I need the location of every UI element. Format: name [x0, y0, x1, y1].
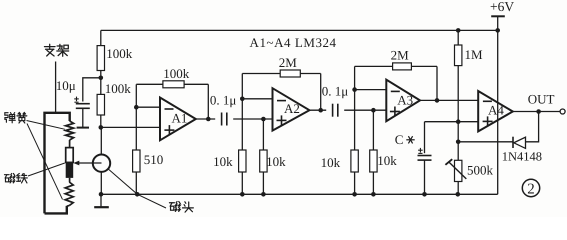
- wire 10k to ground rail A2b: [262, 172, 264, 194]
- wire 500k to ground rail: [457, 182, 459, 195]
- node A3 output / feedback: [435, 98, 440, 103]
- figure number 2: [522, 179, 539, 196]
- node 10k ground A3b: [371, 192, 376, 197]
- wire A4 output: [513, 111, 560, 113]
- svg-text:500k: 500k: [467, 163, 494, 178]
- resistor 10k A2 minus: [239, 150, 246, 172]
- node top rail / 1M: [456, 28, 461, 33]
- wire A1 output: [196, 118, 215, 120]
- resistor 510: [133, 150, 140, 172]
- leader 弹簧 upper: [27, 121, 66, 130]
- node divider mid: [99, 76, 104, 81]
- svg-text:10k: 10k: [377, 153, 397, 168]
- diode 1N4148: [514, 137, 526, 148]
- wire head circle to ground rail: [100, 172, 102, 195]
- node C* ground: [422, 192, 427, 197]
- node top rail / +6V: [495, 28, 500, 33]
- wire A2 output: [309, 109, 326, 111]
- wire spring to holder: [69, 140, 71, 148]
- node A3 plus / 10k: [371, 108, 376, 113]
- node 500k ground: [456, 192, 461, 197]
- bracket leader line: [55, 62, 57, 113]
- svg-text:A1: A1: [172, 111, 188, 126]
- svg-text:OUT: OUT: [528, 92, 555, 107]
- node A1 minus / feedback: [134, 105, 139, 110]
- op-amp A1: [160, 98, 196, 141]
- magnet holder: [66, 148, 74, 163]
- svg-text:510: 510: [144, 152, 164, 167]
- op-amp A4: [478, 91, 513, 131]
- label 磁头: [169, 201, 180, 211]
- svg-text:+6V: +6V: [490, 0, 514, 14]
- wire A2 minus input: [242, 98, 272, 100]
- node A2 output / feedback: [318, 108, 323, 113]
- leader 弹簧 lower: [27, 124, 63, 200]
- svg-text:A1~A4 LM324: A1~A4 LM324: [250, 35, 337, 50]
- ground symbol: [100, 194, 102, 207]
- svg-text:2M: 2M: [391, 48, 410, 63]
- svg-text:2: 2: [527, 181, 535, 197]
- feedback right drop A1: [207, 84, 209, 119]
- frame bracket: [45, 113, 70, 214]
- svg-text:10k: 10k: [266, 154, 286, 169]
- resistor 10k A2 plus: [262, 119, 264, 150]
- svg-text:100k: 100k: [105, 81, 132, 96]
- label 磁铁: [4, 173, 14, 182]
- resistor 100k lower: [97, 94, 104, 115]
- wire A4 plus input: [425, 121, 479, 123]
- spring lower: [65, 182, 73, 206]
- feedback column wire A3: [354, 66, 356, 150]
- resistor 1M: [457, 30, 459, 45]
- svg-text:0. 1μ: 0. 1μ: [322, 84, 349, 99]
- node A4 plus / 1M / C* / 500k: [456, 119, 461, 124]
- node ground rail / head: [99, 192, 104, 197]
- node A2 minus / feedback: [240, 97, 245, 102]
- wire 1M column to 500k: [457, 122, 459, 161]
- node 10k ground A2b: [261, 192, 266, 197]
- wire 10u to ground bar: [82, 108, 84, 127]
- svg-text:1N4148: 1N4148: [502, 150, 542, 164]
- svg-text:0. 1μ: 0. 1μ: [210, 92, 237, 107]
- node A4 output / diode branch: [536, 109, 541, 114]
- top rail wire: [101, 29, 498, 31]
- bracket label 支架: [45, 44, 56, 56]
- node 10k ground A3a: [352, 192, 357, 197]
- svg-text:10k: 10k: [321, 155, 341, 170]
- wire magnet to lower spring: [69, 178, 71, 182]
- label 弹簧: [5, 113, 15, 123]
- wire A3 minus input: [355, 89, 387, 91]
- wire A1 plus input: [101, 126, 160, 128]
- spring upper: [66, 121, 74, 140]
- pickup arrow into magnet: [77, 162, 102, 164]
- svg-text:A3: A3: [397, 93, 413, 108]
- svg-text:100k: 100k: [106, 46, 133, 61]
- svg-text:C: C: [395, 132, 404, 147]
- resistor 10k A3 plus: [372, 110, 374, 150]
- leader 磁头: [108, 169, 166, 208]
- resistor 100k upper: [97, 46, 104, 71]
- magnetic head circle: [93, 155, 110, 172]
- ground bar of 10u: [77, 127, 89, 129]
- wire divider to C 10u: [83, 78, 101, 102]
- wire node to head circle: [100, 127, 102, 154]
- magnet (solid): [66, 162, 74, 178]
- node 510 / ground rail: [135, 192, 140, 197]
- feedback right drop A2: [320, 74, 322, 111]
- +6V drop wire to A4 region: [497, 30, 499, 194]
- node 10k ground A2a: [240, 192, 245, 197]
- node A1 output / feedback: [206, 117, 211, 122]
- wire 1M to A4 plus node: [457, 66, 459, 122]
- svg-text:10k: 10k: [213, 154, 233, 169]
- potentiometer 500k: [455, 160, 462, 181]
- resistor 10k A3 minus: [351, 150, 358, 172]
- feedback right drop A3: [436, 66, 438, 100]
- ground rail wire: [101, 193, 498, 195]
- diode branch wire: [526, 112, 539, 142]
- wire 10k to ground rail A3b: [372, 172, 374, 194]
- svg-text:2M: 2M: [279, 55, 298, 70]
- wire A1 minus input: [136, 106, 160, 108]
- node diode wire tap: [456, 140, 461, 145]
- svg-text:10μ: 10μ: [56, 78, 76, 93]
- feedback column wire A2: [241, 74, 243, 151]
- svg-text:A4: A4: [488, 103, 504, 118]
- wire 10k to ground rail A2a: [241, 172, 243, 194]
- node A1 plus input: [99, 125, 104, 130]
- node A3 minus / feedback: [352, 87, 357, 92]
- wire between 100k resistors: [100, 71, 102, 95]
- wire cap1 to A2 plus: [233, 118, 272, 120]
- wire 100k to head node: [100, 115, 102, 127]
- node A2 plus / 10k: [261, 117, 266, 122]
- svg-text:100k: 100k: [163, 66, 190, 81]
- svg-text:A2: A2: [284, 101, 300, 116]
- wire 510 to ground rail: [135, 172, 137, 194]
- feedback column wire A1: [135, 84, 137, 150]
- svg-text:1M: 1M: [465, 47, 484, 62]
- leader 磁铁: [28, 163, 65, 176]
- wire 10k to ground rail A3a: [354, 172, 356, 194]
- wire cap2 to A3 plus: [344, 109, 386, 111]
- op-amp A3: [386, 80, 420, 122]
- wire rail corner to R 100k: [100, 30, 102, 45]
- op-amp A2: [273, 88, 310, 130]
- wire A3 output to A4 minus: [420, 99, 478, 101]
